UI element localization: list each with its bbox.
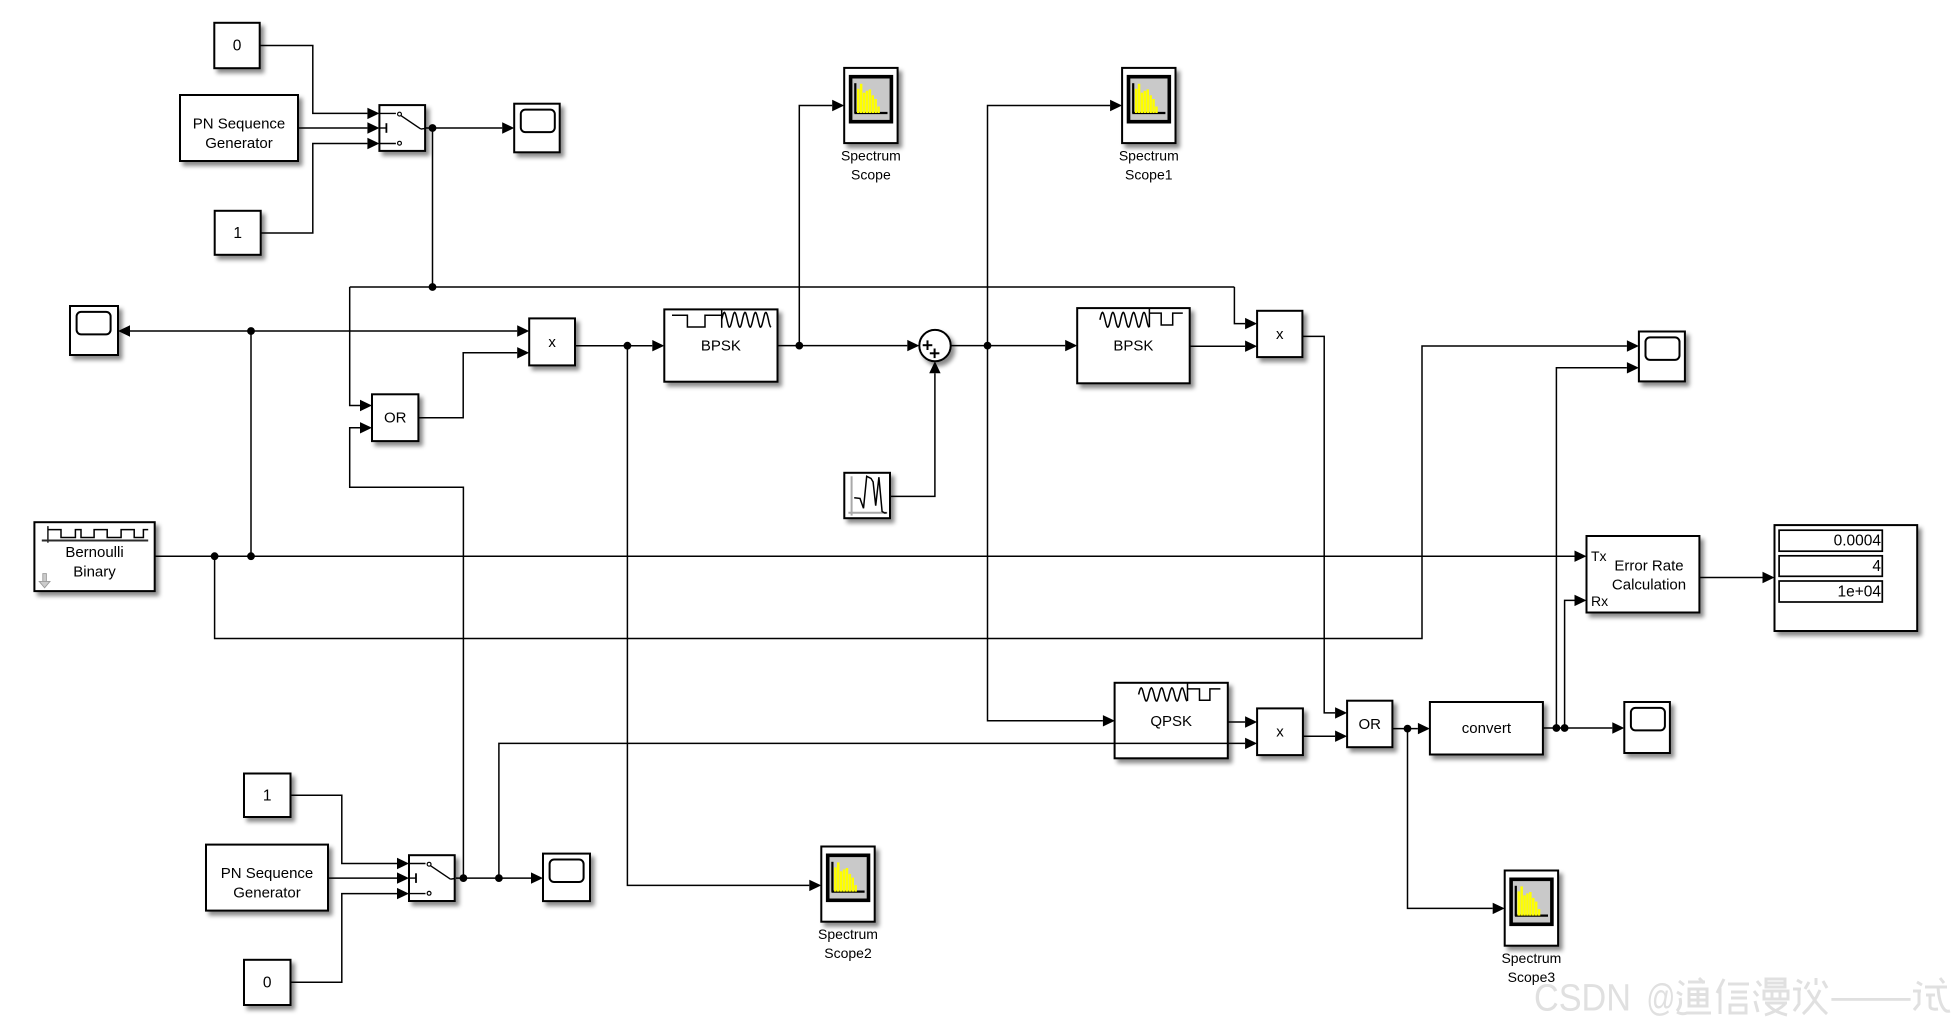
svg-text:Scope3: Scope3 [1508, 969, 1556, 985]
wire: const 0 (bottom) to switch input 3 [291, 888, 410, 982]
wire: product x (middle) output to BPSK modulator [575, 340, 664, 351]
svg-text:Scope1: Scope1 [1125, 167, 1173, 183]
wire: product x (bottom) output to OR (bottom) input 2 [1303, 731, 1347, 742]
svg-text:BPSK: BPSK [701, 337, 741, 354]
svg-text:PN Sequence: PN Sequence [221, 865, 314, 882]
wire: BPSK demodulator output to product x (top right) input 2 [1190, 341, 1257, 352]
junction: scope-left line [247, 327, 255, 335]
wire: convert junction up to Error Rate Rx [1565, 595, 1587, 728]
junction: switch (bottom) output B [495, 874, 503, 882]
wire: convert junction up to scope (right) input 2 [1556, 362, 1639, 728]
switch block (top) [379, 105, 425, 151]
wire: const 1 (bottom) to switch input 1 [291, 795, 410, 869]
wire: sum junction down to QPSK input [988, 346, 1115, 727]
scope block (right, 2 inputs) [1639, 332, 1685, 382]
Error Rate Calculation block [1587, 536, 1700, 613]
wire: bus right end down to product x (top right) input 1 [1234, 287, 1257, 329]
wire: sum junction up to Spectrum Scope1 [988, 100, 1123, 346]
wire: product junction down to Spectrum Scope2 [627, 346, 821, 891]
scope block (bottom right) [1624, 702, 1670, 753]
wire: switch (bottom) junction up to product x (bottom) input 2, crossing QPSK [499, 738, 1257, 878]
svg-text:Calculation: Calculation [1612, 577, 1686, 594]
svg-text:Bernoulli: Bernoulli [65, 544, 123, 561]
wire: switch junction down to horizontal bus y=287 [350, 128, 1235, 287]
wire: Error Rate Calculation output to Display [1699, 572, 1774, 583]
svg-text:Generator: Generator [205, 135, 273, 152]
svg-text:@: @ [1646, 978, 1675, 1020]
scope block (bottom left) [543, 854, 590, 902]
svg-text:OR: OR [384, 410, 407, 427]
watermark CSDN @tongxinmantan [1534, 978, 1675, 1020]
svg-text:Spectrum: Spectrum [841, 148, 901, 164]
convert block [1430, 702, 1543, 755]
logical OR block (bottom) [1347, 701, 1392, 748]
junction: bus y=287 [429, 283, 437, 291]
constant block 1 (bottom) [244, 774, 291, 818]
svg-text:1: 1 [263, 787, 272, 804]
wire: sum output to BPSK demodulator [951, 340, 1077, 351]
sum block + + [919, 330, 950, 361]
wire: Bernoulli Binary output bus to Error Rate Tx [155, 551, 1587, 562]
svg-text:0.0004: 0.0004 [1834, 533, 1882, 550]
product block x (middle) [529, 318, 575, 365]
wire: BPSK output junction up to Spectrum Scope [799, 100, 844, 346]
watermark em dash [1831, 998, 1910, 1001]
product block x (top right) [1257, 311, 1302, 357]
svg-text:x: x [1276, 724, 1284, 741]
Spectrum Scope3 block [1501, 871, 1561, 986]
svg-text:4: 4 [1872, 558, 1881, 575]
svg-text:x: x [548, 334, 556, 351]
wire: Bernoulli junction down to lower bus y=638.5 to scope(right) input 1 [215, 340, 1639, 638]
Spectrum Scope1 block [1119, 68, 1179, 183]
svg-text:0: 0 [233, 38, 242, 55]
constant block 1 (top) [215, 211, 261, 255]
BPSK modulator block [664, 309, 777, 381]
svg-text:Scope2: Scope2 [824, 945, 872, 961]
junction: Bernoulli line x=251 [247, 552, 255, 560]
wire: PN Sequence Generator (top) to switch input 2 [298, 122, 379, 133]
wire: BPSK modulator output to sum [778, 340, 920, 351]
switch block (bottom) [409, 855, 455, 901]
svg-text:BPSK: BPSK [1113, 337, 1153, 354]
svg-text:Error Rate: Error Rate [1614, 558, 1683, 575]
junction: BPSK modulator output [795, 342, 803, 350]
svg-text:PN Sequence: PN Sequence [193, 115, 286, 132]
svg-text:Tx: Tx [1591, 548, 1607, 564]
wire: OR (middle) output to product x (middle) input 2 [418, 347, 529, 418]
wire: switch (bottom) junction up-loop to OR (middle) input 2 [350, 422, 464, 878]
wire: OR output junction down to Spectrum Scope3 [1408, 729, 1505, 915]
wire: QPSK output to product x (bottom) input 1 [1228, 716, 1257, 727]
junction: Bernoulli line x=214.6 [211, 552, 219, 560]
PN Sequence Generator (top) [180, 95, 298, 161]
junction: switch (bottom) output A [460, 874, 468, 882]
svg-text:Spectrum: Spectrum [1501, 950, 1561, 966]
Bernoulli Binary generator block [34, 522, 154, 591]
junction: OR (bottom) output [1404, 725, 1412, 733]
watermark glyph shi [1913, 978, 1950, 1011]
watermark glyph tong [1677, 978, 1711, 1014]
junction: product (middle) output [624, 342, 632, 350]
Spectrum Scope2 block [818, 847, 878, 962]
constant block 0 (top) [214, 23, 259, 68]
watermark glyph tan [1793, 978, 1827, 1014]
wire: OR (bottom) output to convert [1392, 723, 1430, 734]
scope block (top) [514, 104, 560, 153]
svg-text:0: 0 [263, 974, 272, 991]
wire: Bernoulli junction up to scope(left) and product x input 1 [118, 325, 529, 556]
wire: convert output to scope (bottom right) [1543, 722, 1624, 733]
band-limited noise source block [844, 473, 890, 518]
PN Sequence Generator (bottom) [206, 845, 328, 911]
svg-text:convert: convert [1462, 720, 1512, 737]
svg-text:1e+04: 1e+04 [1837, 584, 1881, 601]
watermark glyph xin [1717, 979, 1749, 1014]
wire: PN Sequence Generator (bottom) to switch input 2 [328, 872, 409, 883]
wire: product x (top right) output down to OR (bottom) input 1 [1302, 336, 1347, 718]
junction: convert output B [1561, 724, 1569, 732]
junction: sum output [984, 342, 992, 350]
junction: switch (top) output [429, 124, 437, 132]
constant block 0 (bottom) [244, 960, 291, 1005]
wire: switch (bottom) output to scope [456, 872, 543, 883]
Spectrum Scope block [841, 68, 901, 183]
wire: bus to OR (middle) input 1 [350, 287, 372, 411]
logical OR block (middle) [372, 394, 418, 441]
junction: convert output A [1553, 724, 1561, 732]
svg-text:Spectrum: Spectrum [818, 926, 878, 942]
watermark glyph man [1754, 979, 1788, 1015]
scope block (left, mirrored) [70, 306, 118, 355]
svg-text:QPSK: QPSK [1150, 713, 1192, 730]
QPSK modulator block [1115, 683, 1228, 759]
svg-text:OR: OR [1358, 716, 1381, 733]
wire: switch (top) output to scope and bus [425, 122, 514, 133]
wire: noise source to sum bottom input [890, 361, 941, 496]
svg-text:Binary: Binary [73, 564, 116, 581]
svg-text:x: x [1276, 326, 1284, 343]
svg-text:Scope: Scope [851, 167, 891, 183]
svg-text:Generator: Generator [233, 884, 301, 901]
wire: const 0 (top) to switch input 1 [260, 46, 380, 120]
product block x (bottom) [1257, 708, 1303, 755]
svg-text:Spectrum: Spectrum [1119, 148, 1179, 164]
svg-text:Rx: Rx [1591, 593, 1608, 609]
wire: const 1 (top) to switch input 3 [261, 138, 380, 233]
BPSK demodulator block [1077, 308, 1190, 383]
Display block (0.0004 / 4 / 1e+04) [1775, 525, 1918, 631]
svg-text:1: 1 [233, 225, 242, 242]
